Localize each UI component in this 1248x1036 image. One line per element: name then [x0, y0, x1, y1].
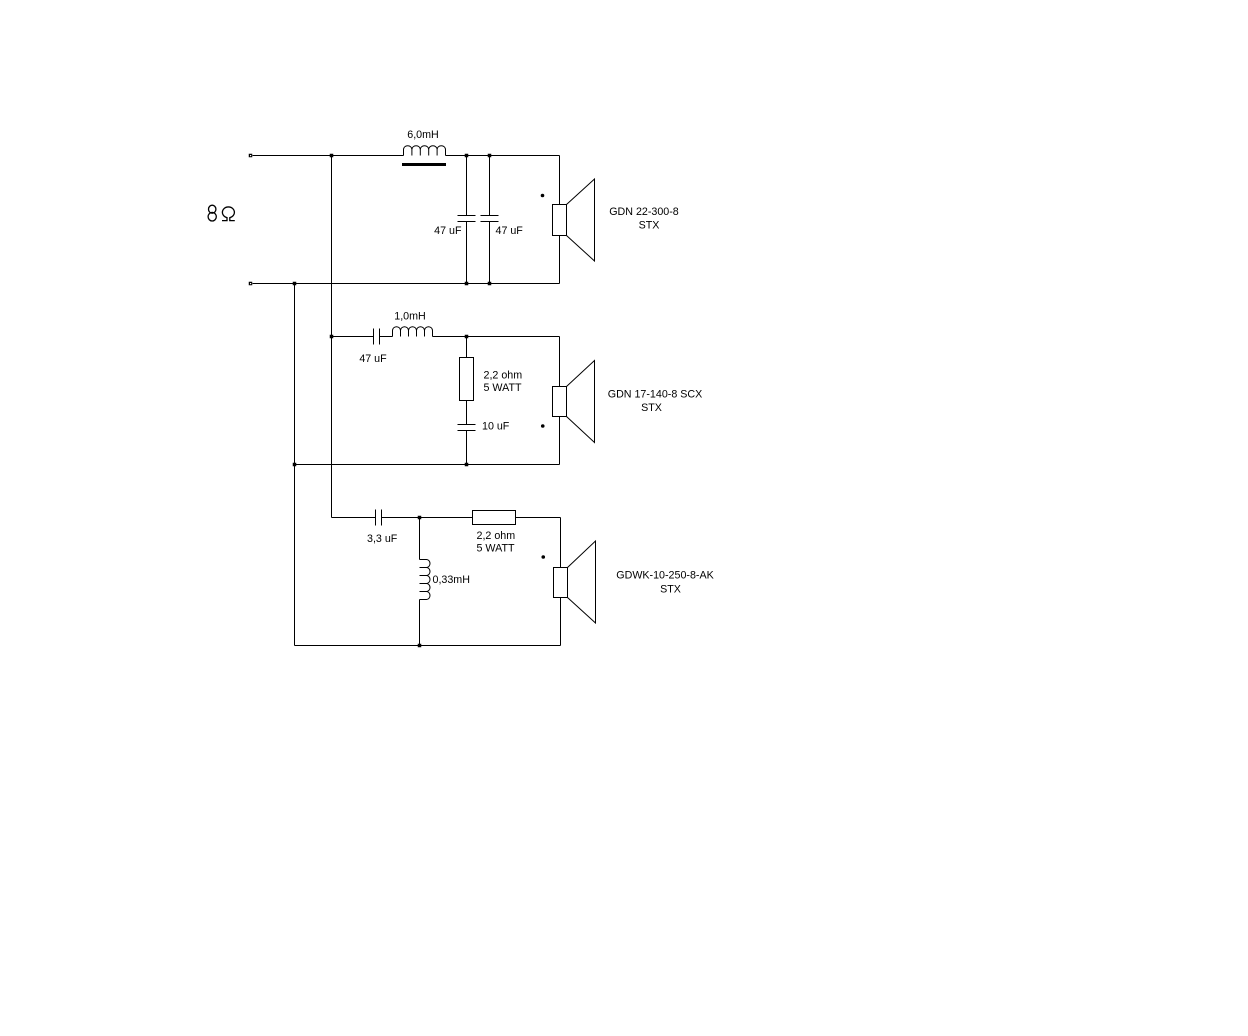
svg-text:STX: STX [641, 402, 662, 414]
node dot C2 / top rail [488, 154, 492, 158]
node dot R1 branch top [465, 335, 469, 339]
svg-text:STX: STX [639, 220, 660, 232]
svg-text:GDN 17-140-8 SCX: GDN 17-140-8 SCX [608, 389, 702, 401]
wire tweeter right rail lower [559, 236, 561, 284]
svg-text:STX: STX [660, 584, 681, 596]
wire woofer top rail segments [332, 517, 376, 519]
speaker SP3 woofer body [554, 568, 568, 598]
speaker SP2 cone [567, 361, 595, 443]
wire woofer right rail upper [560, 518, 562, 568]
wire mid right rail lower [559, 417, 561, 465]
node dot bus B / mid bottom rail [293, 463, 297, 467]
node dot C1 / top rail [465, 154, 469, 158]
speaker SP2 midrange body [553, 387, 567, 417]
wire capacitor C2 leads [489, 156, 491, 216]
node dot C1 / second rail [465, 282, 469, 286]
svg-text:2,2 ohm: 2,2 ohm [477, 530, 516, 542]
inductor L2 1,0mH [393, 327, 433, 337]
inductor L1 6,0mH [404, 146, 446, 156]
svg-text:3,3 uF: 3,3 uF [367, 533, 398, 545]
polarity dot SP2 [541, 424, 545, 428]
wire vertical bus A (plus feed) [331, 156, 333, 518]
node dot C2 / second rail [488, 282, 492, 286]
wire vertical bus B (minus feed) [294, 284, 296, 646]
wire resistor R1 branch leads [466, 337, 468, 358]
wire capacitor C1 leads [466, 156, 468, 216]
terminal input - [249, 282, 253, 286]
resistor R2 2,2 ohm [473, 511, 516, 525]
resistor R1 2,2 ohm [460, 358, 474, 401]
capacitor C5 3,3uF series plates [376, 510, 382, 526]
polarity dot SP1 [541, 194, 545, 198]
svg-text:5 WATT: 5 WATT [484, 382, 522, 394]
svg-text:5 WATT: 5 WATT [477, 543, 515, 555]
node dot R1 branch bottom [465, 463, 469, 467]
svg-text:47 uF: 47 uF [496, 225, 524, 237]
svg-text:6,0mH: 6,0mH [407, 129, 438, 141]
node dot shunt inductor bottom [418, 644, 422, 648]
speaker SP1 cone [567, 179, 595, 261]
svg-text:1,0mH: 1,0mH [394, 311, 425, 323]
wire top rail right (inductor to tweeter) [446, 155, 560, 157]
svg-text:47 uF: 47 uF [434, 225, 462, 237]
node dot shunt inductor top [418, 516, 422, 520]
label input impedance 8 ohm [208, 205, 235, 221]
svg-text:10 uF: 10 uF [482, 421, 510, 433]
svg-text:2,2 ohm: 2,2 ohm [484, 370, 523, 382]
wire woofer right rail lower [560, 598, 562, 646]
polarity dot SP3 [541, 555, 545, 559]
wire top rail left (input + to inductor) [253, 155, 404, 157]
svg-text:47 uF: 47 uF [359, 353, 387, 365]
wire second rail (input - return) [253, 283, 560, 285]
wire mid right rail upper [559, 337, 561, 387]
node dot bus A / top rail [330, 154, 334, 158]
node dot bus A / mid rail [330, 335, 334, 339]
wire tweeter right rail upper [559, 156, 561, 205]
capacitor C4 10uF plates [458, 425, 476, 431]
svg-text:0,33mH: 0,33mH [433, 574, 470, 586]
wire mid bottom rail [295, 464, 560, 466]
svg-text:GDN 22-300-8: GDN 22-300-8 [609, 206, 679, 218]
wire mid top rail segments [332, 336, 374, 338]
speaker SP1 tweeter body [553, 205, 567, 236]
node dot bus B / second rail [293, 282, 297, 286]
wire woofer bottom rail [295, 645, 561, 647]
capacitor C2 47uF plates [481, 216, 499, 222]
capacitor C1 47uF plates [458, 216, 476, 222]
svg-text:GDWK-10-250-8-AK: GDWK-10-250-8-AK [616, 570, 714, 582]
wire shunt inductor leads [419, 518, 421, 560]
speaker SP3 cone [568, 541, 596, 623]
inductor L3 0,33mH shunt [420, 560, 431, 600]
inductor L1 core bar [402, 163, 446, 166]
capacitor C3 47uF series plates [374, 329, 380, 345]
terminal input + [249, 154, 253, 158]
